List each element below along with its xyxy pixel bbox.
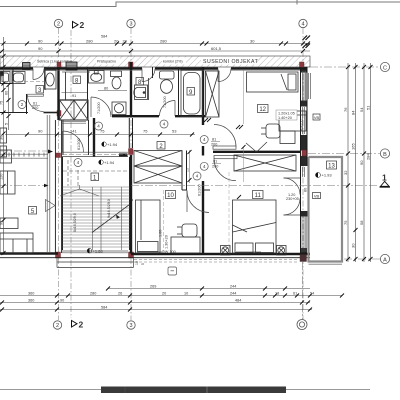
svg-text:A: A bbox=[383, 257, 387, 263]
svg-text:VB: VB bbox=[314, 115, 320, 120]
svg-text:584: 584 bbox=[101, 35, 107, 39]
svg-text:18: 18 bbox=[275, 292, 279, 296]
svg-text:1.20x1.05: 1.20x1.05 bbox=[278, 112, 295, 116]
svg-text:80: 80 bbox=[104, 87, 108, 91]
svg-text:10: 10 bbox=[184, 292, 188, 296]
svg-text:90: 90 bbox=[38, 39, 43, 44]
svg-text:10: 10 bbox=[167, 193, 174, 199]
svg-text:90: 90 bbox=[359, 160, 364, 165]
svg-text:5: 5 bbox=[141, 263, 145, 265]
svg-text:75: 75 bbox=[343, 220, 348, 225]
svg-text:1.40+20: 1.40+20 bbox=[278, 116, 292, 120]
svg-text:75: 75 bbox=[0, 101, 4, 105]
svg-text:280: 280 bbox=[90, 292, 96, 296]
svg-text:81: 81 bbox=[213, 160, 217, 164]
svg-text:3: 3 bbox=[129, 323, 132, 329]
svg-text:11: 11 bbox=[255, 193, 262, 199]
svg-text:58: 58 bbox=[359, 220, 364, 225]
svg-text:3: 3 bbox=[129, 22, 132, 28]
svg-text:76: 76 bbox=[343, 107, 348, 112]
svg-text:230+05: 230+05 bbox=[286, 197, 299, 201]
svg-text:200: 200 bbox=[211, 142, 217, 146]
svg-text:1.00: 1.00 bbox=[159, 230, 163, 237]
svg-text:20: 20 bbox=[114, 39, 119, 44]
svg-text:18: 18 bbox=[135, 261, 139, 265]
svg-text:30: 30 bbox=[351, 243, 356, 248]
svg-text:71/200: 71/200 bbox=[97, 102, 101, 114]
svg-text:SUSEDNI OBJEKAT: SUSEDNI OBJEKAT bbox=[203, 59, 259, 65]
svg-text:200: 200 bbox=[212, 164, 218, 168]
svg-text:71/200: 71/200 bbox=[163, 96, 167, 108]
svg-text:8x16,5/29,0: 8x16,5/29,0 bbox=[73, 213, 77, 232]
svg-text:601,5: 601,5 bbox=[211, 46, 222, 51]
svg-text:244: 244 bbox=[230, 285, 236, 289]
svg-text:koridor (2%): koridor (2%) bbox=[163, 60, 183, 64]
svg-text:120: 120 bbox=[0, 174, 4, 180]
svg-text:13: 13 bbox=[328, 164, 335, 170]
svg-text:284: 284 bbox=[366, 153, 371, 160]
svg-text:141: 141 bbox=[70, 129, 77, 134]
svg-text:269: 269 bbox=[150, 285, 156, 289]
svg-text:30: 30 bbox=[0, 136, 4, 140]
svg-text:54: 54 bbox=[310, 292, 314, 296]
svg-text:53: 53 bbox=[172, 129, 177, 134]
svg-text:B: B bbox=[383, 152, 387, 158]
svg-text:280: 280 bbox=[86, 39, 93, 44]
svg-text:Pristupačno: Pristupačno bbox=[97, 60, 116, 64]
svg-text:32: 32 bbox=[343, 170, 348, 175]
svg-text:60: 60 bbox=[5, 91, 9, 95]
svg-text:20: 20 bbox=[162, 292, 166, 296]
svg-text:51: 51 bbox=[366, 105, 371, 110]
svg-text:10: 10 bbox=[0, 74, 4, 78]
svg-text:+1.93: +1.93 bbox=[322, 173, 333, 178]
svg-text:200: 200 bbox=[32, 106, 38, 110]
svg-text:61/200: 61/200 bbox=[77, 138, 81, 150]
svg-text:165: 165 bbox=[351, 143, 356, 150]
svg-text:484: 484 bbox=[235, 299, 241, 303]
svg-text:90: 90 bbox=[60, 299, 64, 303]
svg-text:2: 2 bbox=[56, 323, 59, 329]
svg-text:80: 80 bbox=[304, 188, 308, 192]
svg-text:9x16,5/29,0: 9x16,5/29,0 bbox=[107, 199, 111, 218]
svg-text:VB: VB bbox=[314, 193, 320, 198]
svg-text:2: 2 bbox=[80, 20, 85, 30]
svg-text:54: 54 bbox=[359, 107, 364, 112]
svg-text:91: 91 bbox=[72, 94, 76, 98]
svg-text:26: 26 bbox=[118, 292, 122, 296]
svg-text:360: 360 bbox=[28, 299, 34, 303]
svg-text:75: 75 bbox=[143, 129, 148, 134]
svg-text:4: 4 bbox=[301, 22, 304, 28]
svg-text:5: 5 bbox=[5, 123, 9, 125]
svg-text:360: 360 bbox=[28, 292, 34, 296]
svg-text:90: 90 bbox=[38, 46, 43, 51]
svg-text:61: 61 bbox=[293, 292, 297, 296]
svg-text:15: 15 bbox=[185, 168, 189, 172]
svg-text:+1.88: +1.88 bbox=[93, 249, 104, 254]
svg-text:+1.94: +1.94 bbox=[107, 142, 118, 147]
svg-text:584: 584 bbox=[101, 306, 107, 310]
svg-text:12: 12 bbox=[259, 107, 266, 113]
svg-text:C: C bbox=[383, 65, 387, 71]
svg-text:61/200: 61/200 bbox=[198, 184, 202, 196]
svg-text:84: 84 bbox=[351, 110, 356, 115]
svg-text:+1.94: +1.94 bbox=[104, 160, 115, 165]
svg-text:280: 280 bbox=[160, 39, 167, 44]
svg-text:DW 100: DW 100 bbox=[162, 250, 176, 254]
svg-text:2: 2 bbox=[79, 320, 84, 330]
svg-text:90: 90 bbox=[38, 129, 43, 134]
svg-text:81: 81 bbox=[212, 138, 216, 142]
svg-text:20: 20 bbox=[123, 39, 128, 44]
svg-text:1.30+20: 1.30+20 bbox=[165, 235, 169, 249]
svg-text:30: 30 bbox=[250, 39, 255, 44]
svg-text:2: 2 bbox=[57, 22, 60, 28]
svg-text:244: 244 bbox=[230, 292, 236, 296]
